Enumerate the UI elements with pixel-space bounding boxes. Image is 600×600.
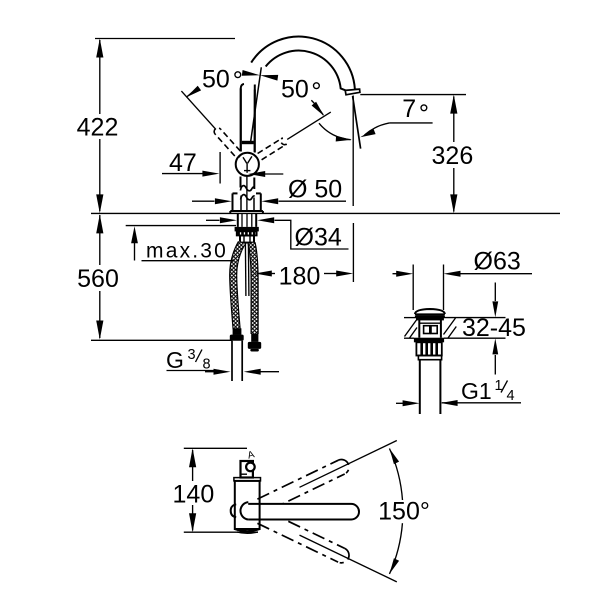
svg-text:32-45: 32-45 xyxy=(462,314,526,342)
braided hose right xyxy=(252,243,255,334)
svg-text:G1: G1 xyxy=(461,378,492,404)
pipe break squiggle xyxy=(240,186,254,200)
right hose fitting xyxy=(248,334,261,352)
mounting flange nut xyxy=(235,227,259,232)
top view: extension lines xyxy=(184,448,258,532)
lever handle upright xyxy=(241,67,262,152)
dimension 150deg swivel arc xyxy=(378,448,430,573)
angle arc arrowheads at upright lever axis (bowtie) xyxy=(242,70,278,81)
left rotation axis leader xyxy=(181,91,216,129)
faucet body column xyxy=(241,89,255,190)
water stream 7deg line xyxy=(353,96,361,149)
serrated washer xyxy=(237,231,257,235)
svg-text:Ø34: Ø34 xyxy=(295,224,342,252)
dimension dia34 shank xyxy=(206,217,349,251)
svg-text:150°: 150° xyxy=(378,498,430,526)
countertop section lines at drain xyxy=(404,318,506,339)
svg-text:47: 47 xyxy=(169,149,197,177)
dimension 47 xyxy=(162,149,283,184)
top view: lever xyxy=(241,461,255,478)
top view: swung spout lower (dashed) xyxy=(257,510,349,563)
drain locknut xyxy=(414,338,444,343)
dimension max.30 xyxy=(126,226,236,263)
svg-text:422: 422 xyxy=(77,114,119,142)
rotated lever position left (dashed) xyxy=(214,128,240,156)
top reference line (spout apex level) xyxy=(95,38,235,40)
G3/8 connection pipe xyxy=(232,341,242,381)
rotated lever position right (dashed) xyxy=(258,138,287,160)
svg-text:Ø 50: Ø 50 xyxy=(288,176,342,204)
dimension 560 vertical xyxy=(77,214,119,339)
label G3/8 xyxy=(166,347,279,375)
svg-text:140: 140 xyxy=(173,481,215,509)
top view: swung spout upper (dashed) xyxy=(257,460,349,513)
svg-text:180: 180 xyxy=(279,263,321,291)
svg-text:Ø63: Ø63 xyxy=(474,248,521,276)
dimension 422 vertical xyxy=(77,39,119,214)
right rotation axis leader xyxy=(287,112,331,139)
drain tailpipe G1 1/4 xyxy=(420,360,441,414)
lock collar xyxy=(240,236,254,243)
base cylinder xyxy=(230,193,263,213)
svg-text:G: G xyxy=(166,347,184,373)
left hose fitting xyxy=(230,328,244,340)
ball joint (cartridge housing) xyxy=(236,153,259,176)
threaded shank xyxy=(238,213,256,227)
angle 50deg right label xyxy=(281,76,324,117)
spout inner arc xyxy=(266,51,346,91)
braided hose left xyxy=(233,243,241,329)
spout outer arc xyxy=(251,37,359,90)
center connection pipe xyxy=(245,243,249,296)
svg-text:50: 50 xyxy=(202,66,230,94)
top view: swing leader upper xyxy=(300,441,397,488)
dimension dia50 base xyxy=(192,176,346,205)
label G1 1/4 xyxy=(396,378,521,406)
outlet level reference line xyxy=(360,94,466,96)
dimension 326 vertical xyxy=(432,95,474,214)
top view: swing leader lower xyxy=(300,535,397,582)
svg-text:max.30: max.30 xyxy=(146,240,228,263)
angle 7deg dimension xyxy=(319,95,433,142)
top view: spout nose bulge xyxy=(231,504,237,517)
drain valve body in counter xyxy=(419,319,441,337)
svg-text:50: 50 xyxy=(281,76,309,104)
dimension 32-45 xyxy=(462,283,526,375)
top view: spout swivel end arc xyxy=(240,502,248,519)
body centerline xyxy=(246,177,248,212)
dimension 140 xyxy=(173,448,215,532)
countertop line xyxy=(91,212,560,214)
top view: faucet body xyxy=(234,478,261,534)
hose-end reference line (bottom of 560) xyxy=(91,339,232,341)
dimension 180 xyxy=(255,263,353,291)
dimension dia63 xyxy=(393,248,533,277)
outlet projection line xyxy=(352,96,354,283)
svg-text:4: 4 xyxy=(507,388,515,404)
top view: spout (solid capsule) xyxy=(248,504,359,520)
svg-text:326: 326 xyxy=(432,142,474,170)
svg-text:3: 3 xyxy=(188,347,196,363)
drain ribbed section xyxy=(416,342,441,359)
angle 50deg left label xyxy=(186,66,240,98)
drain valve cap xyxy=(415,309,445,319)
drain valve extension lines xyxy=(413,265,443,311)
spout aerator outlet xyxy=(345,89,360,95)
svg-text:560: 560 xyxy=(77,265,119,293)
hatching right xyxy=(444,318,457,338)
svg-text:7: 7 xyxy=(402,95,416,123)
hatching left xyxy=(405,320,418,339)
